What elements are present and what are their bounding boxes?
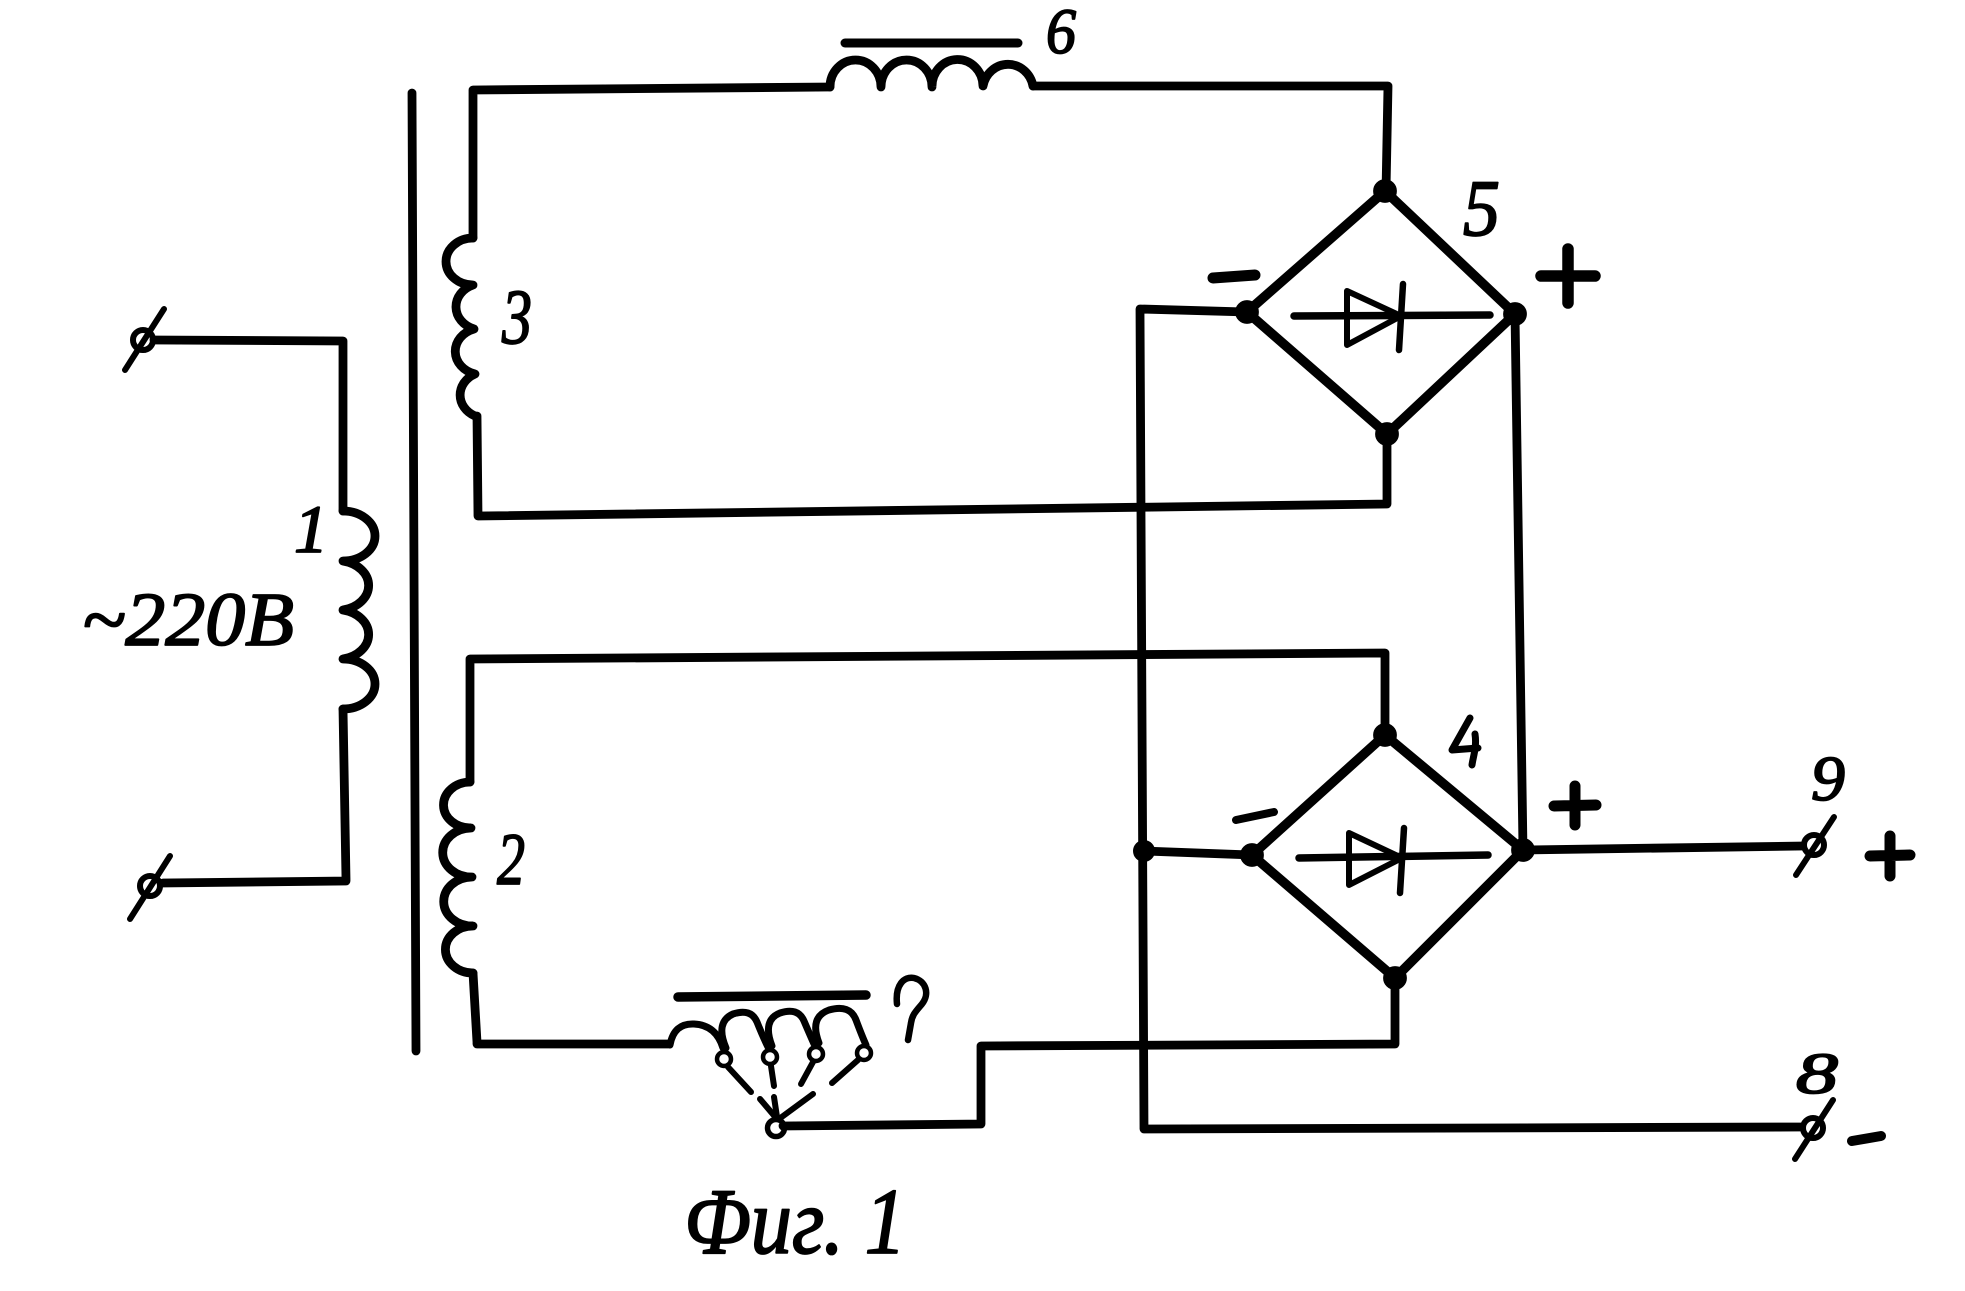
tapped inductor 7 winding (670, 1008, 866, 1048)
svg-text:Фиг. 1: Фиг. 1 (684, 1170, 906, 1274)
svg-text:~220В: ~220В (82, 578, 294, 662)
svg-text:8: 8 (1796, 1041, 1838, 1106)
transformer core (412, 93, 416, 1051)
bridge 5 plus sign (1541, 249, 1595, 303)
svg-text:3: 3 (501, 273, 532, 360)
secondary winding 2 (443, 782, 473, 973)
bridge 5 internal diode (1294, 284, 1490, 350)
label 7 (897, 978, 926, 1040)
svg-text:5: 5 (1463, 165, 1500, 253)
wire: bridge 4 plus to output terminal 9 (1523, 846, 1803, 850)
wire: winding 1 to bottom input terminal (163, 709, 346, 883)
diode bridge 5 (1247, 191, 1515, 434)
bridge 4 node dots (1241, 724, 1534, 989)
wire: winding 2 bottom to inductor 7 (473, 973, 668, 1044)
wire: bridge 5 minus to negative rail (1140, 309, 1802, 1129)
svg-text:2: 2 (497, 819, 525, 901)
output terminal 9 (1796, 817, 1834, 875)
inductor 7 wiper arrow (760, 1094, 813, 1119)
bridge 4 internal diode (1299, 828, 1488, 893)
tapped inductor 7 core bar (678, 995, 866, 997)
inductor 7 tap circles (717, 1046, 871, 1066)
wire: wiper to bridge 4 AC bottom (783, 978, 1395, 1126)
junction dot on negative rail (1133, 840, 1155, 862)
svg-text:9: 9 (1811, 743, 1845, 814)
wire: top input terminal to winding 1 (154, 340, 343, 511)
wire: choke 6 to bridge 5 AC top (1033, 86, 1388, 191)
wire: bridge 5 plus down to bridge 4 plus (1515, 314, 1523, 850)
svg-text:6: 6 (1046, 0, 1076, 68)
label 4 (1452, 718, 1478, 765)
choke 6 core bar (845, 39, 1018, 48)
primary winding 1 (343, 511, 375, 709)
bridge 5 node dots (1236, 180, 1526, 445)
svg-text:1: 1 (294, 491, 328, 567)
minus sign at terminal 8 (1852, 1136, 1881, 1141)
bridge 4 minus sign (1236, 812, 1274, 820)
wire: bridge 5 AC bottom to winding 3 bottom (477, 416, 1387, 516)
inductor 7 selector lines (728, 1060, 858, 1092)
bridge 4 plus sign (1554, 786, 1596, 825)
wire: winding 3 top to choke 6 (473, 87, 830, 238)
bridge 5 minus sign (1213, 275, 1255, 278)
output terminal 8 (1795, 1100, 1833, 1159)
input terminal T1 (top) (125, 309, 164, 370)
inductor 7 wiper terminal (768, 1120, 785, 1137)
wire: bridge 4 minus to negative rail junction (1144, 851, 1252, 855)
filter choke 6 (830, 60, 1033, 87)
secondary winding 3 (446, 238, 475, 416)
wire: winding 2 top to bridge 4 AC top (470, 653, 1385, 782)
input terminal T2 (bottom) (130, 856, 170, 919)
plus sign at terminal 9 (1870, 836, 1910, 876)
diode bridge 4 (1252, 735, 1523, 978)
